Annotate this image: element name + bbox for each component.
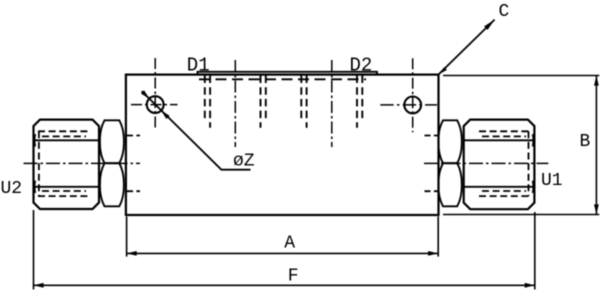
- leader line for øZ: [142, 91, 251, 170]
- right nut facet line 1: [464, 139, 535, 141]
- right nut outline: [464, 120, 535, 210]
- left nut facet line 1: [34, 139, 100, 141]
- right nut bore end hidden line: [528, 131, 530, 196]
- right hole vertical centerline: [412, 58, 414, 132]
- port D2 hole hidden lines: [301, 76, 362, 128]
- svg-text:U2: U2: [1, 179, 23, 199]
- left hole horizontal centerline: [131, 104, 178, 106]
- right collar hex lower: [438, 163, 461, 206]
- svg-text:D1: D1: [187, 55, 210, 77]
- hidden recess line under boss: [199, 78, 366, 80]
- valve body outline: [126, 75, 439, 215]
- left nut bore end hidden line: [38, 131, 40, 196]
- svg-text:C: C: [499, 2, 510, 22]
- left collar hex upper: [100, 120, 124, 163]
- C arrowhead top: [484, 20, 495, 30]
- left collar hex lower: [100, 163, 124, 206]
- A arrowhead right: [428, 251, 438, 256]
- B arrowhead bottom: [594, 204, 599, 214]
- dimension line B: [595, 76, 597, 215]
- centerline port D1: [234, 60, 236, 147]
- right collar hex upper: [438, 120, 461, 163]
- svg-text:B: B: [580, 132, 591, 152]
- B arrowhead top: [594, 76, 599, 86]
- left nut internal thread hidden lines: [38, 131, 88, 196]
- port D1 hole hidden lines: [205, 76, 266, 128]
- right body port thread hidden lines: [425, 136, 438, 192]
- svg-text:D2: D2: [350, 55, 373, 77]
- left nut outline: [34, 120, 100, 209]
- main horizontal centerline left: [24, 162, 141, 164]
- left nut facet line 2: [34, 186, 100, 188]
- dimension F extension lines: [33, 210, 35, 290]
- right nut facet line 2: [464, 186, 535, 188]
- dimension line A: [127, 252, 438, 254]
- svg-text:A: A: [284, 234, 295, 254]
- gauge hole left (øZ): [147, 96, 164, 113]
- centerline port D2: [331, 60, 333, 147]
- svg-text:øZ: øZ: [233, 152, 255, 172]
- svg-text:F: F: [288, 267, 299, 287]
- right nut chamfer arcs: [532, 134, 535, 193]
- dimension B extension lines: [443, 75, 599, 77]
- A arrowhead left: [127, 251, 137, 256]
- leader arrowhead lower: [161, 110, 170, 119]
- corner callout C leader: [439, 20, 495, 75]
- left hole vertical centerline: [154, 58, 156, 129]
- F arrowhead left: [34, 283, 44, 288]
- C arrowhead bottom: [439, 67, 448, 74]
- left body port thread hidden lines: [127, 136, 140, 192]
- top boss pad: [198, 72, 378, 75]
- left nut chamfer arcs: [34, 134, 37, 193]
- right nut internal thread hidden lines: [479, 131, 530, 196]
- svg-text:U1: U1: [541, 171, 563, 191]
- right hole horizontal centerline: [380, 104, 437, 106]
- main horizontal centerline right: [424, 162, 548, 164]
- dimension line F: [34, 284, 535, 286]
- leader arrowhead upper: [141, 90, 150, 99]
- F arrowhead right: [525, 283, 535, 288]
- gauge hole right: [404, 97, 421, 114]
- dimension A extension lines: [126, 217, 128, 257]
